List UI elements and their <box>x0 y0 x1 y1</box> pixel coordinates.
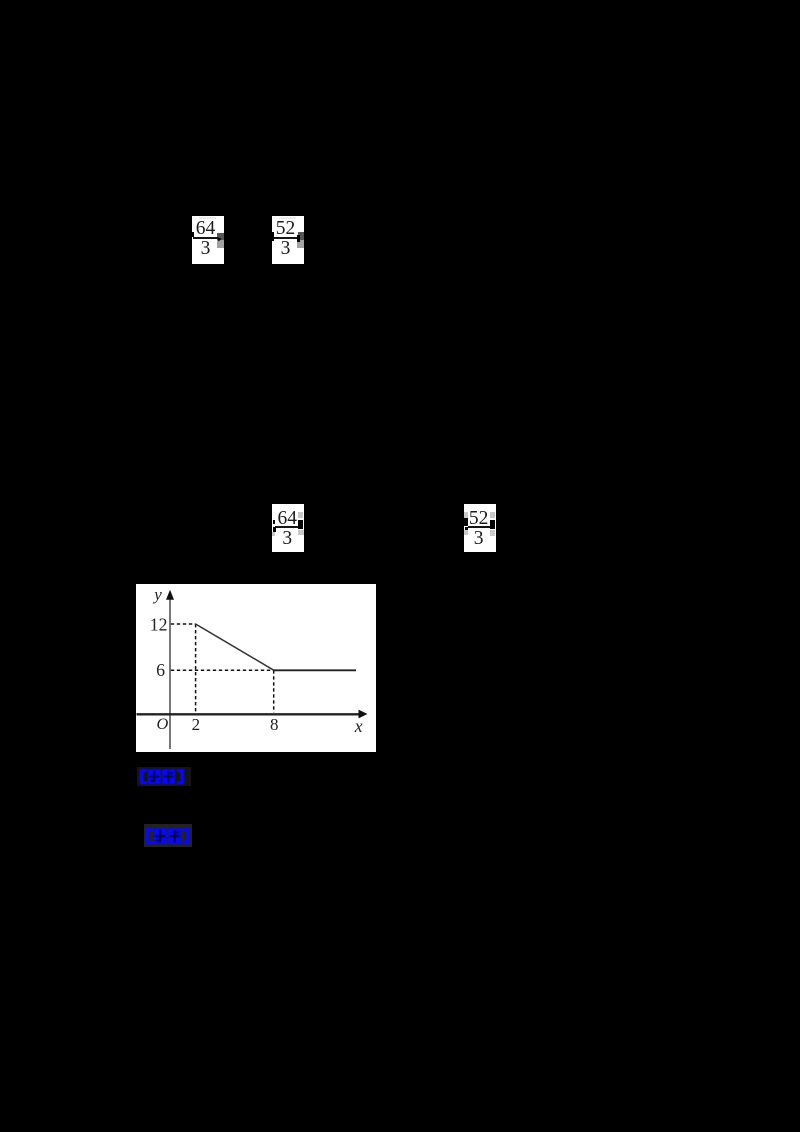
light strip <box>199 217 216 219</box>
black mark left edge <box>272 232 274 241</box>
x-axis <box>137 713 361 715</box>
black blob right <box>298 520 303 530</box>
numerator 52 <box>272 219 299 239</box>
numerator 64 <box>274 509 301 529</box>
black blob right <box>297 235 300 242</box>
gray squares <box>464 512 467 518</box>
blue label 2 <box>144 824 192 847</box>
dashed line x=8 <box>273 670 275 712</box>
light gray square <box>297 240 304 248</box>
black blobs <box>464 518 468 526</box>
denominator 3 <box>192 239 219 259</box>
dashed line y=12 <box>171 623 196 625</box>
black mark left edge <box>192 232 194 238</box>
fraction bar <box>468 526 490 528</box>
svg-text:O: O <box>157 714 169 733</box>
svg-text:x: x <box>354 716 363 736</box>
numerator 64 <box>192 219 219 239</box>
x-axis arrowhead <box>359 710 368 719</box>
svg-text:12: 12 <box>150 614 168 634</box>
dashed line x=2 <box>195 624 197 713</box>
black arrow mark right <box>217 236 222 242</box>
black marks left <box>273 520 276 524</box>
fraction bar <box>193 237 218 239</box>
y-axis <box>169 593 171 749</box>
y-axis arrowhead <box>166 590 174 600</box>
light gray square <box>217 240 224 248</box>
svg-text:8: 8 <box>270 715 279 734</box>
numerator 52 <box>465 509 492 529</box>
svg-text:2: 2 <box>192 715 201 734</box>
fraction box D (52/3) middle right <box>464 504 497 553</box>
denominator 3 <box>465 529 492 549</box>
fraction bar <box>275 526 298 528</box>
denominator 3 <box>272 239 299 259</box>
svg-text:y: y <box>152 585 162 604</box>
svg-text:6: 6 <box>156 660 165 680</box>
gray squares <box>298 512 302 518</box>
fraction box A (64/3) top-left <box>192 216 224 265</box>
graph panel <box>136 584 376 752</box>
fraction box C (64/3) middle <box>272 504 304 553</box>
denominator 3 <box>274 529 301 549</box>
sloped segment <box>196 624 274 670</box>
dark gray square <box>217 233 224 241</box>
fraction bar <box>273 237 298 239</box>
dark gray square <box>298 232 304 240</box>
fraction box B (52/3) top-right <box>272 216 304 265</box>
horizontal segment y=6 <box>274 669 356 671</box>
dashed line y=6 <box>171 669 274 671</box>
blue label 1 <box>137 767 191 786</box>
